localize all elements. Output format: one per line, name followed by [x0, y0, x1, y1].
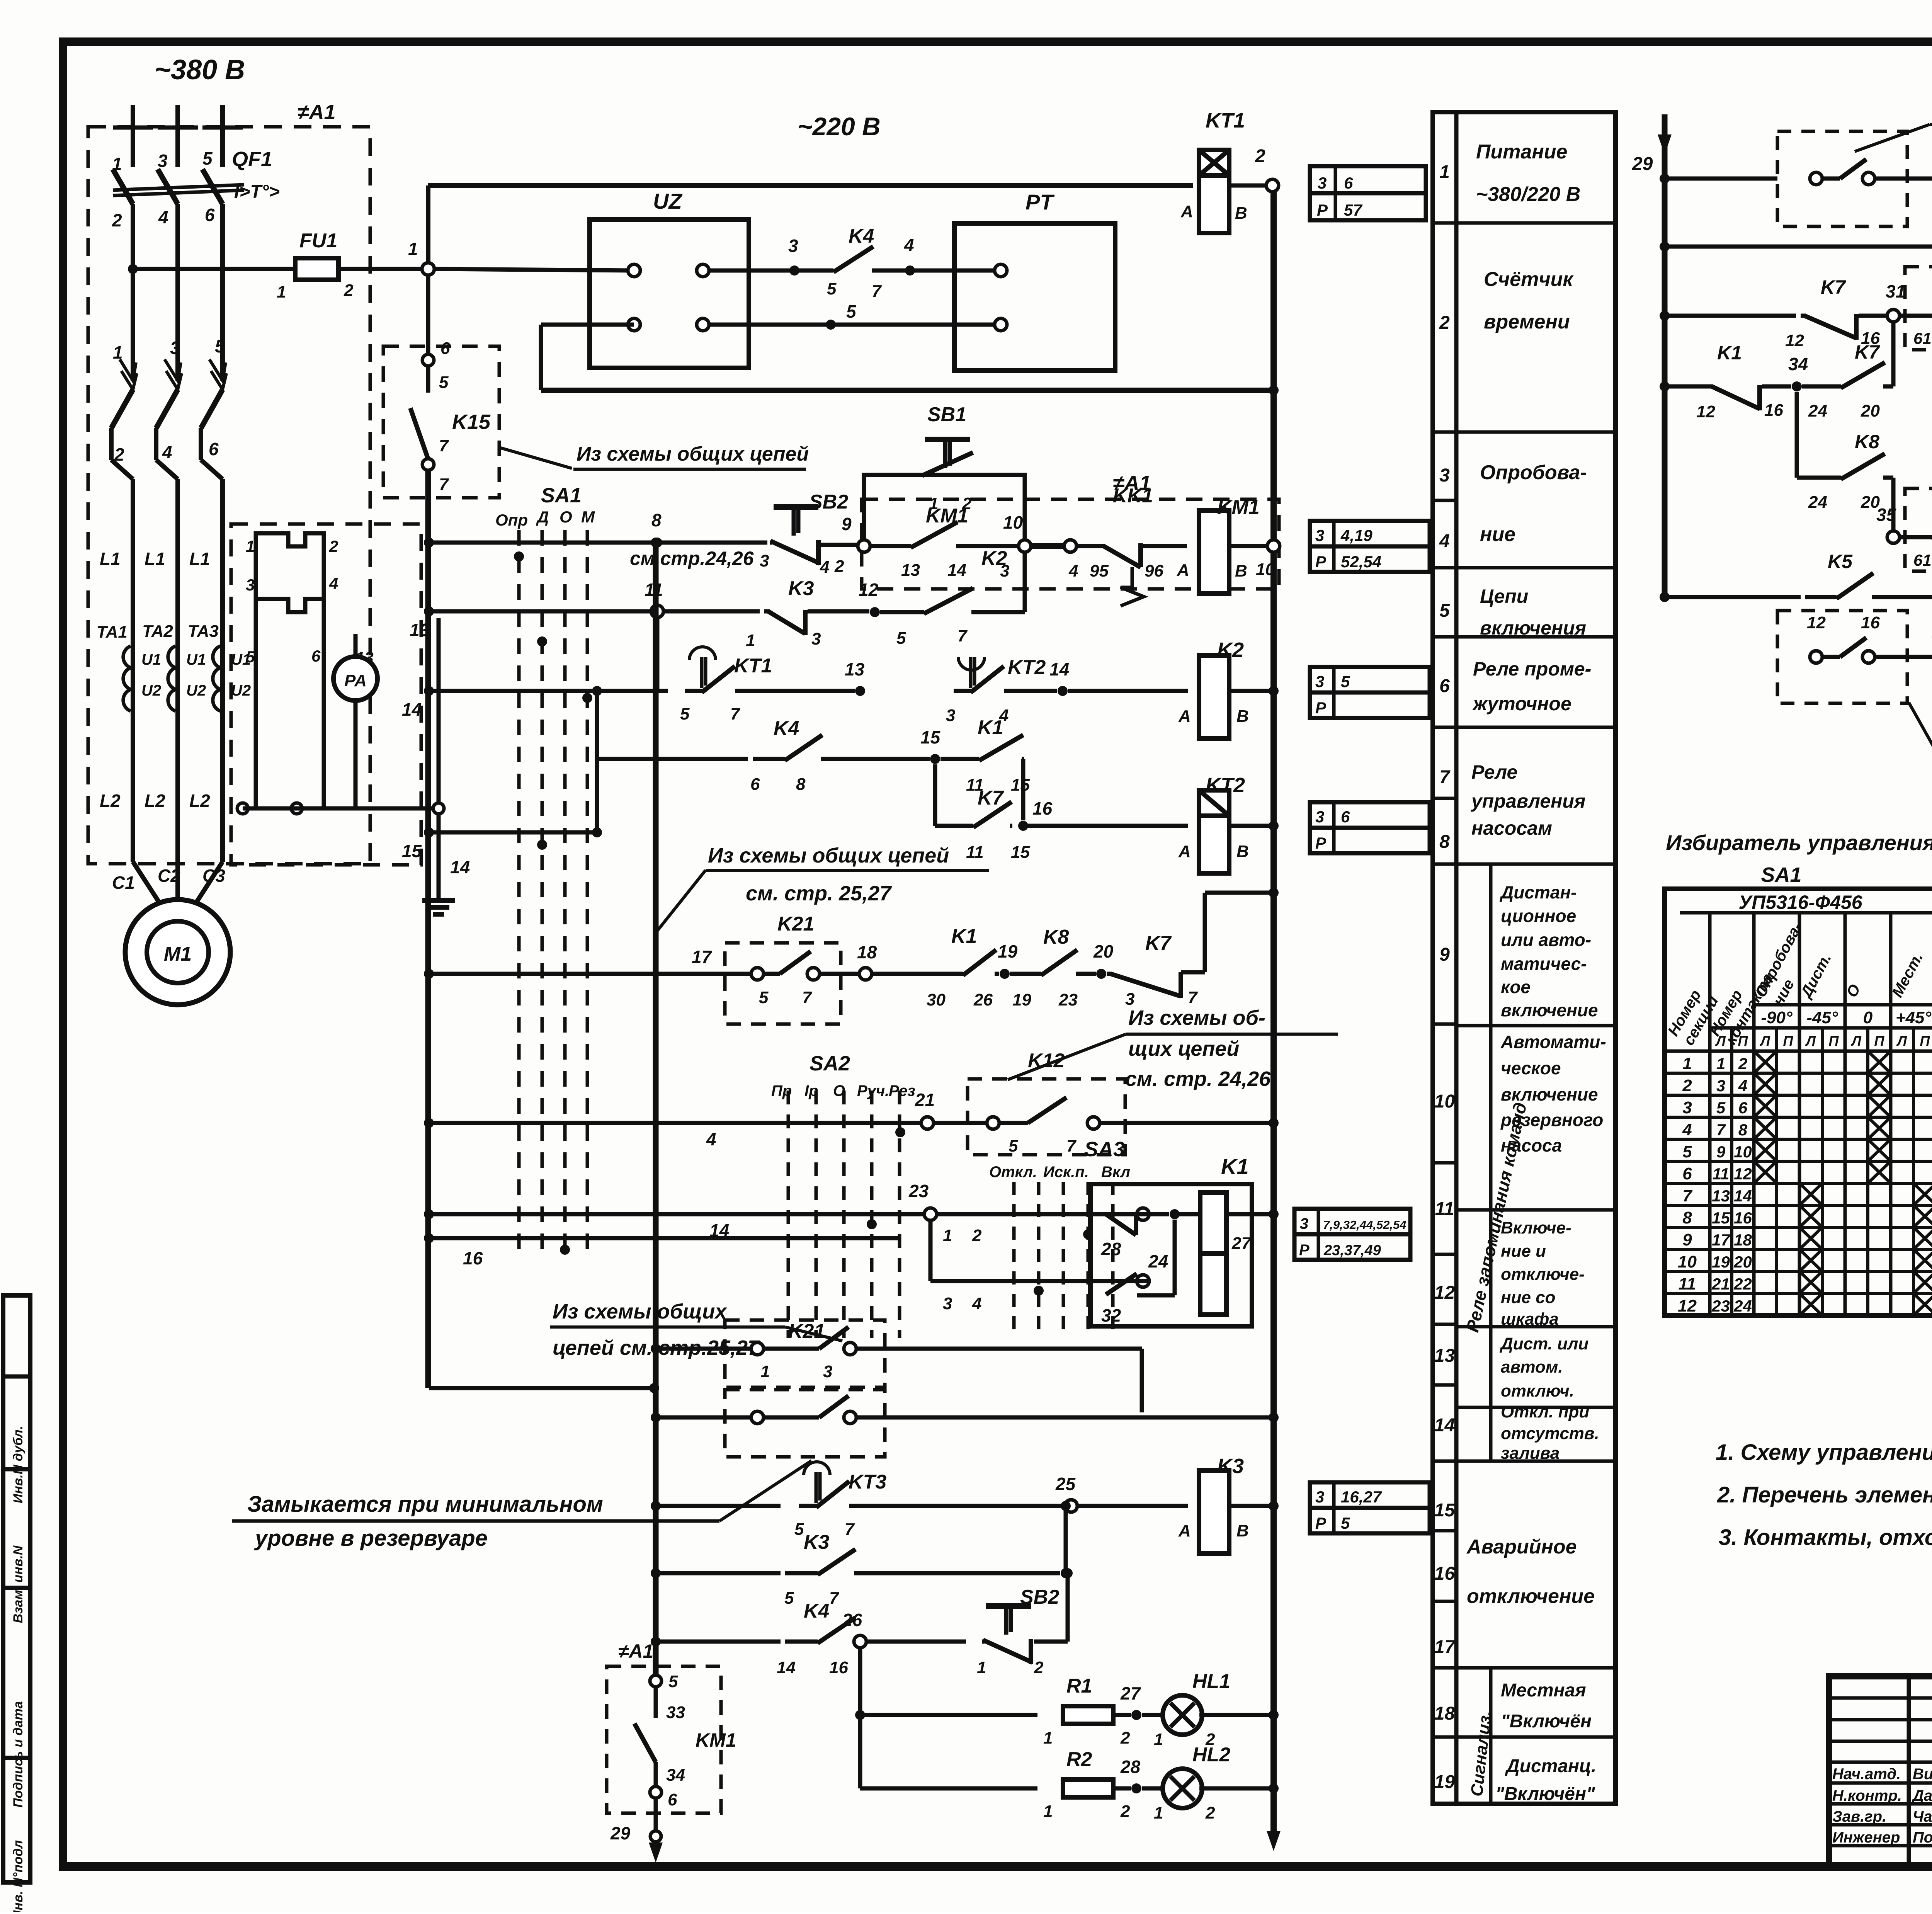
svg-text:K7: K7 [1821, 276, 1846, 298]
svg-text:8: 8 [651, 510, 662, 530]
row K1 34 K7 [1660, 381, 1670, 391]
svg-text:5: 5 [1341, 1514, 1350, 1532]
UZ terminal in2 [628, 318, 640, 331]
text cell border [1456, 221, 1616, 225]
number cell border 9 [1433, 1161, 1456, 1165]
svg-text:U1: U1 [141, 651, 161, 668]
svg-text:12: 12 [859, 580, 879, 600]
annotation from common circuits 24 26 [499, 447, 572, 468]
dashed box K21 lower1 [725, 1320, 885, 1387]
node 4 [905, 265, 915, 276]
left bus bottom corner [429, 1386, 654, 1390]
svg-text:11: 11 [1679, 1274, 1696, 1293]
svg-text:3: 3 [946, 706, 955, 725]
svg-text:ние и: ние и [1501, 1242, 1546, 1261]
svg-text:Вкл: Вкл [1101, 1164, 1130, 1181]
svg-text:61: 61 [1913, 329, 1932, 347]
svg-text:L1: L1 [145, 549, 165, 569]
number cell border 17 [1433, 1735, 1456, 1739]
svg-text:16: 16 [1764, 401, 1783, 420]
svg-text:31: 31 [1886, 281, 1905, 301]
text cell border [1456, 1666, 1616, 1670]
wire to PT [910, 269, 995, 273]
svg-text:2: 2 [344, 281, 354, 300]
svg-text:П: П [1738, 1033, 1748, 1049]
wire [1004, 689, 1057, 693]
wire [1874, 177, 1932, 181]
terminal 6b [650, 1786, 662, 1798]
phase L2 supply tick [158, 126, 198, 130]
rail 220V riser [426, 185, 430, 264]
power cubicle dashed box A1 [88, 127, 370, 864]
svg-text:14: 14 [450, 857, 470, 877]
nested divider rele zapominaniya [1489, 864, 1493, 1461]
svg-text:2. Перечень элементов и пояс: 2. Перечень элементов и пояснения к схем… [1717, 1482, 1932, 1507]
row 17 line [424, 969, 434, 979]
svg-text:K15: K15 [452, 410, 491, 434]
wire node1 down to K15 [426, 274, 430, 355]
K12 terminal r [1087, 1117, 1100, 1129]
svg-text:HL1: HL1 [1192, 1670, 1230, 1693]
svg-text:3: 3 [246, 576, 255, 594]
svg-text:19: 19 [1434, 1772, 1455, 1792]
svg-text:6: 6 [311, 647, 321, 665]
row 16 line [424, 1233, 434, 1243]
svg-text:52,54: 52,54 [1341, 553, 1381, 571]
svg-text:20: 20 [1733, 1253, 1752, 1271]
wire 13-14 to ground [437, 618, 441, 885]
svg-text:4: 4 [158, 207, 168, 227]
phase L3 incoming wire [220, 105, 225, 167]
signature table [1907, 1676, 1911, 1866]
node 28 [1131, 1783, 1141, 1793]
svg-text:Нач.атд.: Нач.атд. [1832, 1766, 1901, 1783]
svg-text:Л: Л [1715, 1033, 1726, 1049]
contact K4 3-4 [799, 269, 833, 273]
svg-text:4: 4 [1068, 561, 1078, 580]
svg-text:включения: включения [1480, 617, 1586, 639]
circuit breaker QF1 [113, 169, 133, 204]
K21 terminal2 [807, 968, 820, 980]
svg-text:П: П [1783, 1033, 1794, 1049]
lp subdivider [1866, 1028, 1869, 1315]
svg-text:~380/220 B: ~380/220 B [1476, 183, 1580, 206]
svg-text:Цепи: Цепи [1480, 585, 1528, 607]
svg-text:Давлианидзе: Давлианидзе [1912, 1787, 1932, 1804]
svg-text:B: B [1236, 842, 1249, 861]
K21 terminal [751, 968, 764, 980]
svg-text:L1: L1 [100, 549, 121, 569]
row K4 14-16 [651, 1637, 661, 1647]
svg-text:Л: Л [1850, 1033, 1862, 1049]
svg-text:12: 12 [1807, 613, 1826, 632]
svg-text:16: 16 [1861, 613, 1880, 632]
svg-text:-90°: -90° [1761, 1008, 1793, 1027]
phase L1 to motor [131, 719, 135, 862]
svg-text:3: 3 [1318, 174, 1327, 192]
svg-text:3: 3 [1300, 1215, 1308, 1232]
svg-text:см. стр. 25,27: см. стр. 25,27 [746, 882, 892, 905]
svg-text:4: 4 [904, 235, 914, 255]
svg-text:24: 24 [1808, 402, 1827, 420]
PA top lead [354, 634, 358, 659]
test block meander upper [256, 533, 324, 559]
svg-text:10: 10 [1256, 560, 1275, 579]
svg-text:7: 7 [957, 626, 968, 645]
svg-text:1: 1 [1154, 1730, 1163, 1749]
svg-text:4: 4 [1738, 1077, 1747, 1095]
svg-text:A: A [1177, 561, 1189, 580]
terminal 18 [859, 968, 872, 980]
svg-text:B: B [1236, 1521, 1249, 1540]
svg-text:16: 16 [463, 1248, 483, 1268]
contact K8 19-23 [1010, 972, 1041, 976]
node 20 [1096, 969, 1106, 979]
svg-text:включение: включение [1501, 1084, 1598, 1104]
terminal into K1 box [1137, 1208, 1149, 1220]
SA1 dot Опр [514, 551, 524, 561]
svg-text:Подпись и дата: Подпись и дата [11, 1701, 26, 1808]
svg-text:11: 11 [966, 843, 984, 862]
svg-text:1: 1 [1043, 1802, 1053, 1821]
SA1 dot Д2 [537, 840, 547, 850]
node 34 [1792, 381, 1802, 391]
svg-text:KT2: KT2 [1008, 656, 1046, 679]
svg-text:10: 10 [1003, 512, 1023, 533]
UZ terminal in1 [628, 264, 640, 277]
svg-text:26: 26 [973, 990, 993, 1009]
dashed box A1 contactor row [862, 499, 1279, 589]
svg-text:P: P [1315, 699, 1327, 717]
terminal 11 [651, 605, 663, 618]
KM1 b blade [634, 1723, 656, 1762]
svg-text:K21: K21 [777, 913, 814, 935]
svg-text:15: 15 [402, 841, 422, 861]
svg-text:5: 5 [439, 373, 449, 392]
svg-text:4: 4 [329, 574, 338, 592]
contact K1 12-16 [1708, 385, 1713, 389]
terminal L2 row [291, 803, 302, 814]
svg-text:17: 17 [692, 947, 713, 967]
bus junction [1269, 1710, 1279, 1720]
UZ out2 to PT [708, 323, 995, 327]
svg-text:U1: U1 [186, 651, 206, 668]
svg-text:П: П [1920, 1033, 1930, 1049]
svg-text:3: 3 [1315, 808, 1324, 826]
svg-text:15: 15 [920, 727, 941, 747]
svg-text:1: 1 [246, 537, 255, 555]
svg-text:K3: K3 [788, 577, 814, 600]
svg-text:P: P [1299, 1242, 1310, 1259]
svg-text:29: 29 [1632, 154, 1653, 174]
svg-text:K5: K5 [1828, 551, 1853, 572]
relay coil K2 [1199, 655, 1229, 738]
data row 4 [1665, 1138, 1932, 1141]
svg-text:24: 24 [1733, 1297, 1752, 1315]
SA1 dot М [582, 693, 592, 703]
number cell border 12 [1433, 1383, 1456, 1387]
test wire [322, 624, 326, 808]
svg-text:17: 17 [1434, 1637, 1456, 1657]
svg-text:-45°: -45° [1806, 1008, 1838, 1027]
row 13: cepi vklyucheniya line [424, 606, 434, 616]
text cell border [1456, 1024, 1616, 1028]
svg-text:Инв. N°подл: Инв. N°подл [11, 1840, 26, 1912]
K21 blade [780, 951, 811, 974]
SA3 dot2 [1034, 1286, 1044, 1296]
time relay coil KT2 [1199, 790, 1229, 873]
node in box [1170, 1209, 1180, 1219]
contact K2 5-7 [880, 610, 924, 614]
svg-text:SA1: SA1 [541, 484, 582, 507]
svg-text:ционное: ционное [1501, 906, 1576, 926]
data row 5 [1665, 1160, 1932, 1163]
svg-text:7: 7 [439, 436, 449, 455]
wire KT1 to node2 [1227, 184, 1267, 188]
table vline [1708, 913, 1712, 1315]
svg-text:P: P [1317, 201, 1328, 219]
svg-text:U2: U2 [186, 682, 206, 699]
row K4 6-8 [597, 757, 748, 761]
wire [856, 1571, 1060, 1575]
contact K7 3-7 [1107, 972, 1112, 976]
svg-text:3: 3 [1716, 1077, 1725, 1095]
SB1 bypass wiring [864, 475, 1025, 541]
svg-text:1: 1 [112, 154, 122, 174]
wire [1023, 757, 1024, 761]
svg-text:1. Схему управления задвижка: 1. Схему управления задвижками см. лист … [1716, 1440, 1932, 1465]
riser up [1064, 1506, 1068, 1573]
svg-text:Счётчик: Счётчик [1484, 268, 1574, 291]
svg-text:Иск.п.: Иск.п. [1043, 1164, 1089, 1181]
svg-text:6: 6 [209, 439, 219, 459]
svg-text:Подосёнова: Подосёнова [1913, 1829, 1932, 1846]
feed2 [656, 1416, 752, 1420]
svg-text:35: 35 [1876, 505, 1897, 525]
row HL2 [860, 1786, 1037, 1791]
K15 blade [410, 408, 428, 459]
row HL1 [860, 1713, 1037, 1717]
motor M1 [125, 900, 230, 1005]
svg-text:Инженер: Инженер [1832, 1829, 1900, 1846]
node 19 [1000, 969, 1010, 979]
terminal L2 row [237, 803, 248, 814]
svg-text:отключе-: отключе- [1501, 1265, 1585, 1284]
corner down [1021, 759, 1026, 820]
svg-text:2: 2 [1034, 1658, 1044, 1677]
terminal 26 [854, 1635, 866, 1648]
svg-text:13: 13 [1434, 1346, 1455, 1366]
svg-text:K8: K8 [1043, 926, 1069, 948]
svg-text:4: 4 [972, 1294, 981, 1313]
svg-text:5: 5 [896, 629, 906, 648]
svg-text:R1: R1 [1066, 1675, 1092, 1697]
SA3 dashed columns [1012, 1182, 1016, 1332]
svg-text:Чаруева: Чаруева [1913, 1808, 1932, 1825]
svg-text:L2: L2 [189, 791, 210, 811]
riser x1545 [595, 691, 599, 832]
pushbutton SB2 3-4 [774, 504, 818, 510]
time counter PT box [954, 223, 1115, 371]
tap [651, 1344, 661, 1354]
svg-text:32: 32 [1101, 1305, 1121, 1325]
svg-text:1: 1 [1154, 1803, 1163, 1822]
svg-text:B: B [1236, 707, 1249, 726]
contact KM1 61-62 b [1928, 535, 1932, 539]
svg-text:6: 6 [1738, 1099, 1748, 1117]
wire right [855, 1347, 1142, 1351]
svg-text:K4: K4 [774, 717, 799, 740]
svg-text:4: 4 [162, 442, 172, 462]
row 14: rele promezhutochnoe line [424, 686, 434, 696]
wire [974, 610, 1025, 614]
X marks [1754, 1051, 1777, 1073]
timed contact KT2 3-4 [954, 689, 972, 693]
reference table K1 [1294, 1209, 1410, 1234]
svg-text:13: 13 [1712, 1187, 1730, 1205]
svg-text:матичес-: матичес- [1501, 954, 1587, 974]
svg-text:6: 6 [750, 775, 760, 794]
svg-text:5: 5 [215, 336, 225, 356]
svg-text:5: 5 [784, 1589, 794, 1608]
number cell border 14 [1433, 1529, 1456, 1533]
text cell border [1456, 430, 1616, 434]
svg-text:2: 2 [1120, 1729, 1130, 1747]
svg-text:13: 13 [410, 620, 430, 640]
phase L1 incoming wire [131, 105, 135, 167]
terminal 14 [433, 803, 444, 814]
svg-text:4: 4 [1439, 531, 1450, 551]
svg-text:Из схемы общих: Из схемы общих [553, 1300, 727, 1323]
test blocks dashed box [231, 524, 421, 865]
svg-text:О: О [833, 1082, 845, 1099]
leader to K12 [1008, 1034, 1126, 1080]
svg-text:14: 14 [947, 561, 966, 580]
svg-text:3: 3 [1315, 1488, 1324, 1506]
terminal 25 [1065, 1500, 1077, 1512]
svg-text:≠A1: ≠A1 [298, 100, 336, 124]
phase L2 incoming wire [175, 105, 180, 167]
pressure switch blade [1840, 159, 1866, 179]
svg-text:1: 1 [977, 1658, 986, 1677]
svg-text:7,9,32,44,52,54: 7,9,32,44,52,54 [1323, 1218, 1406, 1232]
node 2 terminal [1266, 179, 1279, 192]
table vline [1889, 913, 1893, 1315]
riser 31 [1891, 321, 1896, 386]
terminal on bus 10 [1267, 540, 1280, 552]
SA2 dashed columns [787, 1091, 790, 1338]
svg-text:4,19: 4,19 [1340, 526, 1372, 544]
svg-text:залива: залива [1501, 1444, 1560, 1463]
wire to bus [1226, 1212, 1274, 1216]
svg-text:7: 7 [1188, 988, 1198, 1007]
svg-text:1: 1 [408, 239, 418, 259]
svg-text:резервного: резервного [1500, 1110, 1603, 1130]
riser node15 down [933, 764, 937, 826]
svg-text:30: 30 [927, 990, 946, 1009]
svg-text:или авто-: или авто- [1501, 930, 1591, 950]
svg-text:2: 2 [1439, 313, 1450, 333]
K21b blade [819, 1327, 849, 1349]
data row 2 [1665, 1094, 1932, 1097]
svg-text:времени: времени [1484, 311, 1570, 333]
wire [1227, 824, 1274, 828]
svg-text:TA2: TA2 [142, 622, 173, 641]
row 25 line [651, 1501, 661, 1511]
contact K1 30-26 [935, 972, 963, 976]
wire [866, 1640, 966, 1644]
svg-text:8: 8 [1439, 832, 1450, 852]
svg-text:KT1: KT1 [1206, 109, 1245, 132]
svg-text:П: П [1829, 1033, 1839, 1049]
svg-text:1: 1 [1043, 1729, 1053, 1747]
svg-text:3: 3 [1439, 465, 1450, 486]
dashed box K12 [968, 1079, 1125, 1155]
svg-text:27: 27 [1120, 1683, 1141, 1703]
svg-text:6: 6 [205, 205, 215, 225]
svg-text:26: 26 [842, 1610, 862, 1630]
svg-text:14: 14 [1049, 659, 1069, 679]
svg-text:Местная: Местная [1501, 1680, 1586, 1701]
terminal 21 [921, 1117, 934, 1129]
test wire [254, 624, 258, 808]
svg-text:3: 3 [1682, 1098, 1692, 1117]
data row 12 [1665, 1314, 1932, 1317]
row SA2 line [424, 1118, 434, 1128]
node 14 [1058, 686, 1068, 696]
svg-text:8: 8 [796, 775, 806, 794]
svg-text:"Включён: "Включён [1501, 1711, 1592, 1732]
svg-text:Замыкается при минимальном: Замыкается при минимальном [247, 1492, 603, 1517]
svg-text:11: 11 [1435, 1199, 1454, 1219]
data row 9 [1665, 1248, 1932, 1251]
wire [1141, 544, 1187, 548]
SA3 dot [1083, 1229, 1093, 1239]
svg-text:насоса: насоса [1501, 1135, 1562, 1155]
resistor R2 [1063, 1780, 1113, 1797]
svg-text:7: 7 [730, 704, 741, 723]
svg-text:щих цепей: щих цепей [1128, 1037, 1239, 1060]
lamp branch riser [858, 1647, 862, 1788]
svg-text:10: 10 [1734, 1143, 1752, 1161]
svg-text:7: 7 [1439, 767, 1451, 788]
pushbutton SB2 [986, 1603, 1031, 1609]
svg-text:2: 2 [972, 1226, 982, 1245]
wire [1077, 1504, 1188, 1508]
svg-text:SB1: SB1 [927, 403, 966, 426]
data row 10 [1665, 1270, 1932, 1273]
wire right2 [855, 1416, 1142, 1420]
svg-text:управления: управления [1470, 790, 1585, 812]
row 8: opробование line [424, 538, 434, 548]
relay coil K3 [1199, 1470, 1229, 1553]
svg-text:A: A [1178, 1521, 1191, 1540]
svg-text:3: 3 [1125, 990, 1134, 1009]
svg-text:U2: U2 [141, 682, 161, 699]
dashed box K15 [383, 346, 499, 498]
reference table K2 [1310, 667, 1430, 692]
wire to FU1 [133, 267, 295, 271]
data row 11 [1665, 1292, 1932, 1295]
svg-text:I>T°>: I>T°> [234, 182, 280, 202]
svg-text:PT: PT [1026, 190, 1055, 214]
bus junction [1269, 1783, 1279, 1793]
junction riser [1061, 1568, 1071, 1578]
contact K7 12-16 [1801, 314, 1806, 318]
node 27 [1131, 1710, 1141, 1720]
text cell border [1456, 1406, 1616, 1409]
svg-text:16: 16 [1734, 1209, 1752, 1227]
